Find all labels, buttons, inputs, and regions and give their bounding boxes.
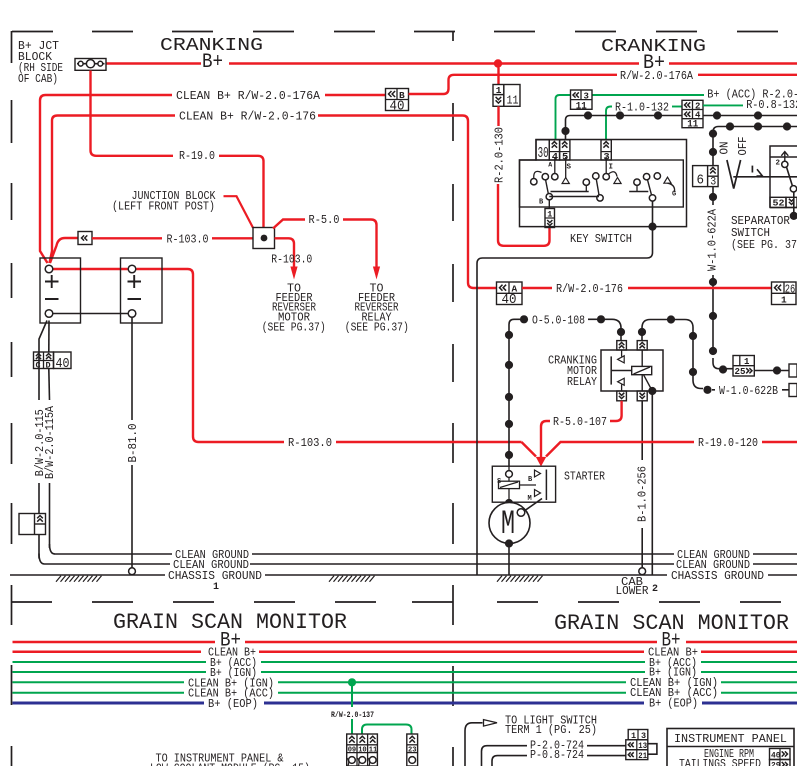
battery G1 — [40, 258, 81, 323]
svg-text:I: I — [609, 164, 614, 172]
leader line to junction block (red) — [224, 196, 254, 228]
svg-text:OFF: OFF — [737, 136, 750, 155]
wire R-0.8-132 (green) — [703, 104, 743, 106]
svg-text:(SEE PG.37): (SEE PG.37) — [345, 322, 409, 335]
terminal ring B-81.0 at chassis ground — [129, 568, 136, 575]
svg-text:B/W-2.0-115A: B/W-2.0-115A — [44, 406, 57, 479]
svg-text:R-5.0-107: R-5.0-107 — [553, 416, 607, 429]
wire R-103.0 down arrow to feeder reverser motor (red) — [275, 238, 295, 268]
svg-text:B-81.0: B-81.0 — [127, 423, 140, 462]
node B+ bus junction — [494, 59, 502, 67]
connector <<13 — [626, 740, 648, 750]
svg-text:CLEAN B+ R/W-2.0-176: CLEAN B+ R/W-2.0-176 — [179, 111, 316, 124]
wire R-5.0 down arrow to feeder reverser relay (red) — [273, 220, 305, 229]
svg-text:KEY SWITCH: KEY SWITCH — [570, 233, 632, 246]
toggle switch separator ON/OFF — [719, 142, 732, 155]
wire R-19.0-120 with dip into starter (red) — [522, 442, 695, 457]
svg-text:R/W-2.0-176: R/W-2.0-176 — [556, 283, 623, 296]
label W-1.0-622A (vertical) — [707, 209, 720, 271]
connector X40-B (<<B 40) — [386, 89, 409, 111]
svg-text:OF CAB): OF CAB) — [18, 73, 58, 86]
connector X25 (1 / 25>>) — [733, 356, 754, 377]
svg-text:A: A — [548, 162, 552, 169]
wire R-1.0-132 (green) — [606, 107, 612, 140]
svg-text:2: 2 — [776, 160, 781, 168]
svg-text:11: 11 — [369, 746, 378, 754]
relay top connector cells — [617, 341, 627, 350]
wire X25 to edge connector — [754, 370, 789, 372]
svg-text:TAILINGS SPEED: TAILINGS SPEED — [679, 758, 761, 766]
cranking motor relay K1 body — [601, 350, 663, 391]
svg-text:LOW COOLANT MODULE (PG. 15): LOW COOLANT MODULE (PG. 15) — [150, 762, 310, 766]
wire relay contact to chassis ground — [651, 395, 653, 576]
wire W-1.0-622B to connector — [712, 389, 789, 391]
label B-1.0-256 (vertical) — [637, 466, 650, 522]
wire grain CLEAN B+ (IGN) bus (green) — [13, 681, 797, 683]
key switch terminal 30 cell — [536, 140, 549, 160]
wire R-103.0 from battery (red) — [50, 238, 78, 263]
wire R-5.0-107 (red) — [610, 401, 622, 421]
svg-text:1: 1 — [496, 85, 502, 96]
B+ junction block J1 (RH side of cab) — [75, 59, 106, 71]
svg-text:O-5.0-108: O-5.0-108 — [532, 315, 585, 328]
key switch terminal 5 cell — [560, 140, 570, 160]
instrument panel box — [667, 729, 794, 769]
wire separator to harness — [793, 192, 795, 216]
wire grain B+ (IGN) bus (green) — [13, 671, 797, 673]
svg-text:CLEAN B+ R/W-2.0-176A: CLEAN B+ R/W-2.0-176A — [176, 90, 320, 103]
svg-text:52: 52 — [773, 198, 785, 209]
svg-text:30: 30 — [538, 145, 549, 162]
connector X40-CD (C D 40) — [34, 352, 54, 369]
wire starter to chassis ground — [505, 539, 513, 547]
svg-text:P-0.8-724: P-0.8-724 — [530, 749, 584, 762]
svg-text:B+ (EOP): B+ (EOP) — [208, 698, 258, 711]
svg-text:09: 09 — [348, 746, 357, 754]
svg-text:R-19.0: R-19.0 — [179, 150, 215, 163]
wire R/W-2.0-137 (green) — [351, 682, 353, 707]
ground hatching 2 — [329, 576, 375, 582]
node bus dots — [584, 111, 592, 119]
svg-text:1: 1 — [547, 210, 552, 220]
svg-text:R-0.8-132: R-0.8-132 — [746, 99, 797, 112]
connector 29 instrument — [770, 760, 791, 771]
connector battery ground block — [19, 514, 46, 535]
arrow into starter B terminal (red) — [536, 457, 546, 467]
connector X26 (<<26 / 1) — [772, 282, 797, 305]
node junction on CLEAN B+ (IGN) — [348, 678, 356, 686]
wire P-0.8-724 (black) — [492, 756, 527, 766]
svg-text:B-1.0-256: B-1.0-256 — [637, 466, 650, 522]
connector X11-1 (1 / 11) — [493, 85, 520, 107]
wire grain CLEAN B+ bus (red) — [13, 650, 797, 653]
wire B+ bus (red) — [106, 62, 797, 64]
svg-text:21: 21 — [638, 752, 647, 761]
svg-text:(SEE PG.37): (SEE PG.37) — [262, 322, 326, 335]
wire CLEAN B+ R/W-2.0-176A (red) — [40, 95, 172, 263]
wire battery positive bus (red) — [53, 269, 284, 442]
svg-text:LOWER: LOWER — [616, 585, 649, 598]
svg-text:S: S — [567, 164, 572, 172]
wire grain B+ (EOP) bus (blue) — [13, 702, 797, 705]
svg-text:10: 10 — [358, 746, 367, 754]
relay internals — [610, 356, 612, 384]
wire B/W-2.0-115 (battery negative) — [39, 321, 47, 401]
label B/W-2.0-115A (vertical) — [44, 406, 57, 479]
svg-text:11: 11 — [687, 119, 698, 131]
svg-text:1: 1 — [213, 582, 219, 593]
starter solenoid box — [492, 466, 555, 502]
wire B-1.0-256 (black) — [641, 401, 643, 460]
svg-text:B+: B+ — [202, 51, 223, 74]
svg-text:W-1.0-622A: W-1.0-622A — [707, 209, 720, 271]
wire jumper to connector 23 (green) — [362, 725, 412, 735]
wire relay feed branch (black) — [642, 320, 703, 389]
svg-text:1: 1 — [781, 295, 787, 306]
wire R/W-2.0-176 (red) — [522, 287, 552, 289]
separator switch S2 — [770, 146, 797, 208]
svg-text:40: 40 — [502, 293, 517, 308]
key switch terminal 3 cell — [601, 140, 611, 160]
connector separator 52 — [770, 197, 786, 207]
svg-text:TERM 1 (PG. 25): TERM 1 (PG. 25) — [505, 724, 597, 737]
connector 40>> instrument — [770, 749, 791, 760]
connector X40-A (<<A 40) — [497, 282, 523, 305]
svg-text:R-103.0: R-103.0 — [288, 437, 332, 450]
svg-text:R-2.0-130: R-2.0-130 — [494, 127, 507, 183]
svg-text:M: M — [528, 495, 532, 503]
label B/W-2.0-115 (vertical) — [34, 409, 47, 476]
svg-text:23: 23 — [408, 746, 417, 754]
ground hatching 1 — [56, 576, 102, 582]
connector inline << on R-103.0 — [78, 232, 92, 245]
connector X3-6 (6 / 3) — [693, 166, 719, 187]
connector edge W-1.0-622B — [789, 384, 797, 397]
wire key switch G to ground (black) — [477, 201, 653, 575]
wire grain B+ bus (red) — [13, 641, 797, 644]
wire R-19.0 (red) — [91, 71, 264, 228]
wire R-2.0-130 (red) — [497, 68, 499, 85]
connector X13 (1 3) — [628, 730, 648, 740]
label B-81.0 (vertical) — [127, 423, 140, 462]
connector X11-3 (<<3 / 11) — [571, 90, 593, 109]
connector X-23 — [407, 734, 418, 766]
wire W-1.0-622A (black) — [712, 187, 714, 205]
wire P-2.0-724 (black) — [482, 746, 528, 766]
wire grain CLEAN B+ (ACC) bus (green) — [13, 692, 797, 694]
wire W-1.0-622A feed (black) — [713, 127, 797, 166]
svg-text:INSTRUMENT PANEL: INSTRUMENT PANEL — [674, 733, 787, 746]
svg-text:R-1.0-132: R-1.0-132 — [615, 102, 669, 115]
svg-text:40: 40 — [390, 100, 405, 115]
svg-text:29: 29 — [771, 761, 781, 767]
svg-text:STARTER: STARTER — [564, 470, 605, 483]
wire key switch supply bus (black) — [566, 116, 683, 140]
svg-text:R-19.0-120: R-19.0-120 — [698, 437, 758, 450]
wire B+ (ACC) R-2.0 (green) — [556, 95, 571, 140]
wire CLEAN B+ R/W-2.0-176 (red) — [50, 116, 176, 264]
svg-text:2: 2 — [652, 584, 658, 595]
connector block X-GSM (09 10 11) — [347, 734, 378, 766]
wire B-81.0 to chassis ground — [131, 317, 133, 420]
label R-2.0-130 (vertical) — [494, 127, 507, 183]
arrow wire to light switch (black) — [465, 723, 483, 766]
starter motor M1 — [505, 499, 513, 507]
svg-text:M: M — [501, 506, 515, 544]
ground hatching 3 — [497, 576, 543, 582]
svg-text:(LEFT FRONT POST): (LEFT FRONT POST) — [112, 200, 215, 213]
svg-text:W-1.0-622B: W-1.0-622B — [719, 385, 778, 398]
svg-text:(SEE PG. 37: (SEE PG. 37 — [731, 239, 797, 252]
svg-text:CHASSIS GROUND: CHASSIS GROUND — [671, 570, 764, 583]
key switch terminal 4 cell — [549, 140, 559, 160]
connector <<21 — [626, 750, 648, 760]
wire R-19.0-120 (red) — [336, 441, 522, 443]
svg-text:D: D — [46, 361, 51, 371]
svg-text:C: C — [36, 361, 41, 371]
svg-text:R/W-2.0-176A: R/W-2.0-176A — [620, 70, 693, 83]
terminal ring B-1.0-256 at ground — [639, 568, 646, 575]
wire grain B+ (ACC) bus (green) — [13, 661, 797, 663]
svg-text:25: 25 — [735, 366, 746, 377]
wire clean ground bus 2 — [45, 563, 797, 565]
svg-text:R-5.0: R-5.0 — [309, 214, 340, 227]
wire 622A to connector 25 — [719, 365, 727, 373]
svg-text:R-103.0: R-103.0 — [271, 254, 312, 267]
key switch terminal B connector (1) — [548, 200, 550, 209]
relay bottom connector cells — [617, 391, 627, 401]
key switch S1 body — [520, 140, 687, 227]
svg-text:R-103.0: R-103.0 — [167, 234, 209, 247]
svg-text:11: 11 — [576, 100, 587, 112]
wire R-2.0-130 lower (red) — [497, 106, 499, 126]
wire battery negative interconnect — [53, 313, 129, 315]
svg-text:6: 6 — [697, 174, 705, 189]
connector mate bracket — [648, 744, 657, 755]
svg-text:11: 11 — [507, 94, 519, 108]
svg-text:RELAY: RELAY — [567, 376, 597, 389]
starter internals — [506, 471, 513, 478]
svg-text:R/W-2.0-137: R/W-2.0-137 — [331, 711, 374, 720]
connector X11-24 (<<2 <<4 11) — [682, 100, 703, 127]
wire clean ground bus 1 — [55, 553, 797, 555]
battery G2 — [121, 258, 163, 323]
wire O-5.0-108 left branch (black) — [509, 319, 520, 466]
svg-text:B+ (EOP): B+ (EOP) — [649, 697, 698, 710]
wire chassis ground bus — [10, 574, 797, 576]
wire O-5.0-108 right branch (black) — [588, 319, 621, 340]
svg-text:40: 40 — [56, 356, 70, 372]
svg-text:ON: ON — [719, 142, 732, 155]
wire R/W-2.0-176A to right column (red) — [409, 75, 618, 94]
wire B/W-2.0-115A (battery negative) — [48, 321, 50, 353]
junction block J2 (left front post) — [253, 228, 275, 249]
